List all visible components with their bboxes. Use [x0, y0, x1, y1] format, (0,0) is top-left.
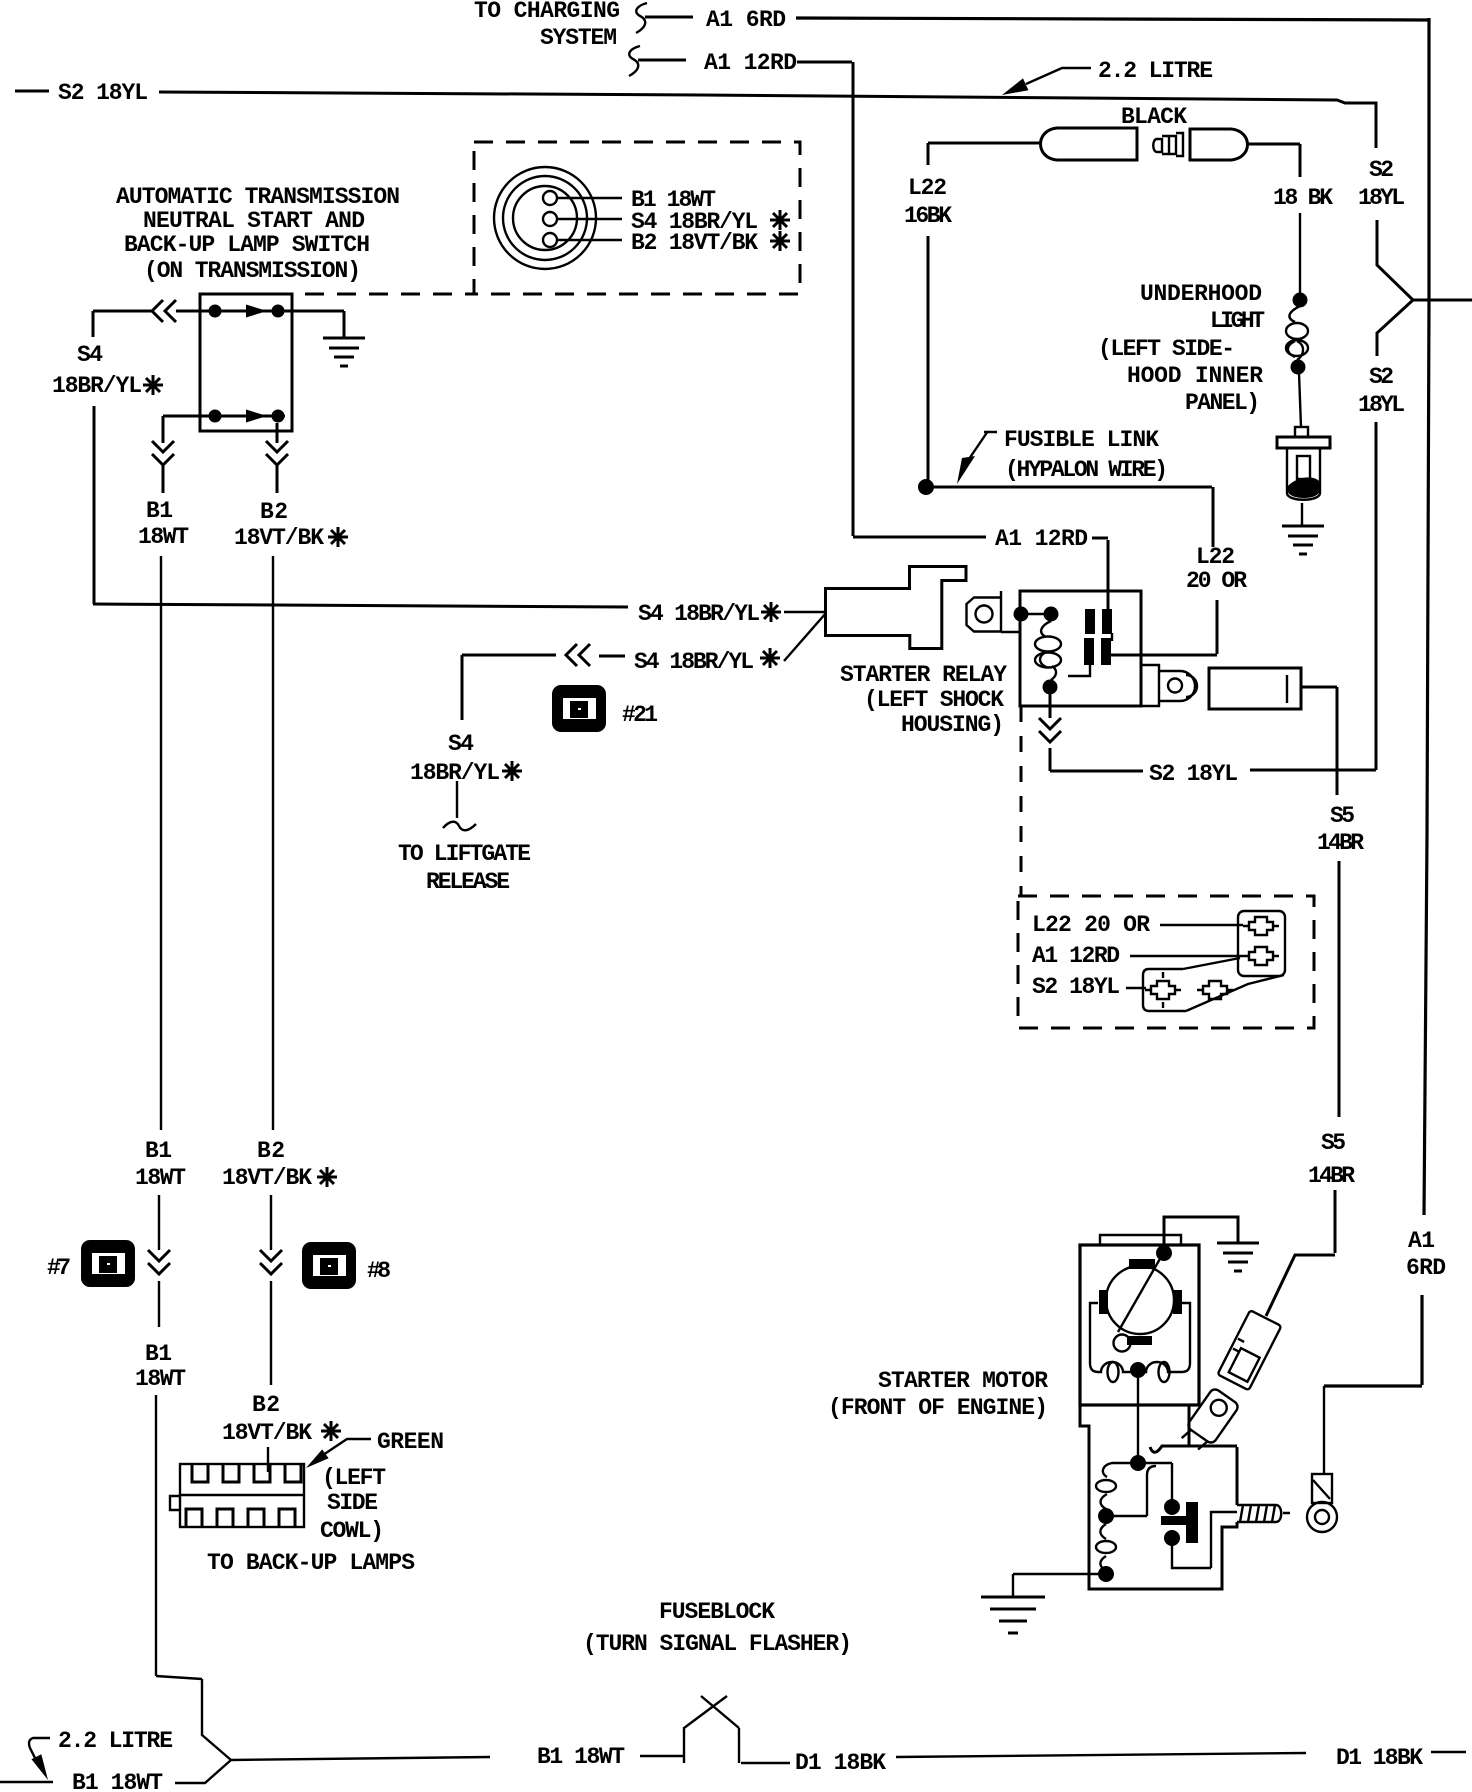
svg-text:S2 18YL: S2 18YL [1032, 974, 1120, 1000]
label B2 18VT/BK lower [222, 1392, 341, 1446]
svg-text:SIDE: SIDE [327, 1490, 378, 1516]
svg-text:SYSTEM: SYSTEM [540, 25, 617, 51]
switch S1 lower contact dots [209, 410, 222, 423]
spade terminal on solenoid S terminal [1218, 1310, 1282, 1390]
switch S1 upper arrow [246, 305, 267, 318]
label (LEFT SIDE COWL) [320, 1465, 386, 1544]
label B1 18WT [138, 498, 189, 550]
svg-text:16BK: 16BK [904, 203, 952, 229]
wire B1 long vertical [160, 556, 162, 1130]
wire 18 BK from bullet [1248, 144, 1300, 177]
wire A1 6RD to right edge [796, 18, 1429, 20]
wire L22 20 OR run [934, 487, 1217, 655]
wire S5 from diode box [1301, 687, 1337, 795]
wire B2 long vertical [272, 556, 274, 1130]
svg-text:NEUTRAL START AND: NEUTRAL START AND [143, 208, 365, 234]
brushes [1099, 1259, 1182, 1345]
chevron on S2 relay output [1039, 718, 1061, 742]
pin label S4 18BR/YL [631, 209, 790, 235]
svg-text:STARTER RELAY: STARTER RELAY [840, 662, 1007, 688]
svg-text:14BR: 14BR [1317, 830, 1364, 856]
wire S2 18YL top left stub [15, 90, 49, 93]
label S5 14BR [1317, 803, 1364, 856]
wire B1 bottom corner [156, 1676, 231, 1760]
wire break squiggle A1 12RD [629, 46, 640, 76]
label B1 18WT lower [135, 1341, 186, 1392]
bulb (left side-hood inner panel) [1277, 427, 1330, 500]
svg-text:(LEFT SHOCK: (LEFT SHOCK [864, 687, 1004, 713]
inset leader S2 [1126, 987, 1146, 989]
label S4 18BR/YL liftgate [410, 731, 522, 786]
wire S4 from switch to left corner [93, 311, 152, 337]
svg-text:BLACK: BLACK [1121, 104, 1187, 130]
underhood lamp top dot [1293, 293, 1308, 308]
solenoid coil bottom dot [1098, 1566, 1114, 1582]
starter relay contact bars upper [1085, 609, 1095, 634]
wire S4 branch down to liftgate [461, 655, 464, 720]
starter relay coil dots [1014, 607, 1029, 622]
contact dots [1164, 1499, 1180, 1546]
dashed link from switch to connector view [305, 293, 474, 296]
connector C100 pin S4 [543, 212, 557, 226]
svg-text:GREEN: GREEN [377, 1429, 444, 1455]
starter relay inner contact lead [1068, 633, 1112, 676]
svg-text:(LEFT SIDE-: (LEFT SIDE- [1098, 336, 1235, 362]
svg-text:(HYPALON WIRE): (HYPALON WIRE) [1005, 457, 1168, 483]
label B1 18WT mid [135, 1138, 186, 1191]
wire lower contact to stud [1172, 1512, 1237, 1568]
switch label: automatic transmission neutral start and back-up lamp switch [116, 184, 400, 284]
svg-text:L22: L22 [1196, 544, 1235, 570]
label 2.2 LITRE bottom with arrow [29, 1728, 173, 1780]
svg-text:B1: B1 [145, 1341, 172, 1367]
svg-text:TO LIFTGATE: TO LIFTGATE [398, 841, 531, 867]
label FUSEBLOCK (TURN SIGNAL FLASHER) [583, 1599, 852, 1657]
wire S4 row 2 [462, 655, 625, 656]
wire to bulb [1299, 373, 1301, 427]
wire break squiggle liftgate [443, 822, 476, 831]
wire B2 stub to connector [267, 1447, 269, 1472]
chevron B1 [152, 441, 174, 465]
wire S4 row1 to relay plug [784, 611, 826, 613]
label STARTER MOTOR (FRONT OF ENGINE) [828, 1368, 1048, 1421]
chevron B2 lower [260, 1250, 282, 1274]
ground at switch [323, 338, 365, 366]
label S2 18YL lower right [1358, 364, 1405, 418]
wire L22 16BK vertical [927, 143, 930, 486]
wire B1 to chevron [158, 1195, 160, 1327]
connector #8 [302, 1242, 356, 1289]
wire S4 row 1 [93, 604, 628, 607]
label B2 18VT/BK mid [222, 1138, 337, 1191]
label FUSIBLE LINK (HYPALON WIRE) with arrow [957, 427, 1168, 484]
dashed box around transmission connector view [474, 142, 800, 294]
wire B1 below switch [162, 416, 165, 493]
svg-text:#21: #21 [622, 702, 658, 728]
svg-text:D1 18BK: D1 18BK [1336, 1745, 1423, 1771]
wire to fuseblock tent [640, 1755, 684, 1757]
starter relay contact bars lower [1084, 638, 1094, 665]
svg-text:A1 12RD: A1 12RD [995, 526, 1088, 552]
label B2 18VT/BK [234, 499, 348, 551]
field coil ovals [1108, 1362, 1170, 1382]
svg-text:S4 18BR/YL: S4 18BR/YL [638, 601, 760, 627]
label STARTER RELAY (LEFT SHOCK HOUSING) [840, 662, 1007, 738]
wire from motor to ground [1164, 1217, 1238, 1250]
svg-text:(LEFT: (LEFT [322, 1465, 386, 1491]
back-up lamp connector (left side cowl) [170, 1464, 304, 1527]
inset leader L22 [1160, 924, 1243, 926]
label S4 18BR/YL row 2 [634, 648, 780, 675]
starter relay coil [1035, 621, 1061, 680]
svg-text:(TURN SIGNAL FLASHER): (TURN SIGNAL FLASHER) [583, 1631, 852, 1657]
wire bulb to ground [1301, 503, 1303, 525]
svg-text:TO BACK-UP LAMPS: TO BACK-UP LAMPS [207, 1550, 415, 1576]
wire S2 to Y junction [1377, 220, 1413, 300]
svg-text:2.2 LITRE: 2.2 LITRE [1098, 58, 1213, 84]
chevron B1 lower [148, 1250, 170, 1274]
switch S1 upper contact dots [209, 305, 222, 318]
connector C100 pin B2 [543, 233, 557, 247]
wire S2 18YL long top run [159, 92, 1376, 148]
svg-text:18VT/BK: 18VT/BK [234, 525, 324, 551]
svg-text:B2: B2 [260, 499, 288, 525]
inset terminal cross S2 left [1145, 972, 1181, 1008]
svg-text:PANEL): PANEL) [1185, 390, 1260, 416]
svg-text:L22 20 OR: L22 20 OR [1032, 912, 1150, 938]
inset terminal bracket upper [1238, 911, 1285, 976]
label 2.2 LITRE with arrow [1002, 58, 1213, 95]
connector #7 [81, 1240, 135, 1287]
wire B2 to chevron [270, 1195, 272, 1385]
svg-text:20 OR: 20 OR [1186, 568, 1247, 594]
wire A1 to ring terminal [1323, 1386, 1325, 1474]
label L22 16BK [904, 175, 952, 229]
wire D1 18BK run [896, 1753, 1306, 1757]
underhood lamp bottom dot [1291, 360, 1306, 375]
switch S1 lower contact wire [163, 415, 285, 418]
wire to solenoid [1137, 1378, 1139, 1456]
wire after crossover [741, 1762, 790, 1764]
label LEFT SIDE-HOOD INNER PANEL [1098, 336, 1263, 416]
dashed link relay to inset [1020, 706, 1023, 896]
svg-text:HOOD INNER: HOOD INNER [1127, 363, 1263, 389]
pin B2 leader [557, 239, 622, 241]
svg-text:2.2 LITRE: 2.2 LITRE [58, 1728, 173, 1754]
fuseblock crossover [684, 1696, 739, 1763]
svg-text:UNDERHOOD: UNDERHOOD [1140, 281, 1262, 307]
svg-text:18VT/BK: 18VT/BK [222, 1165, 312, 1191]
starter motor housing [1080, 1245, 1199, 1405]
inset terminal cross S2 right [1197, 981, 1233, 999]
solenoid coil mid dot [1098, 1508, 1114, 1524]
inset leader A1 [1130, 955, 1243, 957]
wire S2 to right edge [1413, 299, 1472, 302]
starter relay K1 body [1020, 591, 1141, 706]
label L22 20 OR [1186, 544, 1247, 594]
label S2 18YL upper right [1358, 157, 1405, 211]
starter relay S4 plug [826, 567, 967, 649]
svg-text:14BR: 14BR [1308, 1163, 1355, 1189]
svg-text:18WT: 18WT [138, 524, 189, 550]
svg-text:#8: #8 [367, 1258, 391, 1284]
underhood lamp filament coil [1286, 306, 1308, 360]
wire row2 diagonal to plug [784, 613, 826, 661]
armature frame [1090, 1303, 1190, 1372]
svg-text:D1 18BK: D1 18BK [795, 1750, 886, 1776]
switch S1 body (on transmission) [200, 294, 292, 431]
label S4 18BR/YL left [52, 342, 163, 399]
pin B1 leader [557, 197, 622, 199]
ground at starter motor [1217, 1243, 1259, 1271]
solenoid housing [1080, 1405, 1237, 1589]
wire D1 18BK off page right [1431, 1751, 1466, 1753]
svg-text:S4 18BR/YL: S4 18BR/YL [634, 649, 754, 675]
svg-text:A1 12RD: A1 12RD [704, 50, 797, 76]
svg-text:S2: S2 [1369, 157, 1394, 183]
svg-text:(ON TRANSMISSION): (ON TRANSMISSION) [144, 258, 361, 284]
svg-text:6RD: 6RD [1406, 1255, 1446, 1281]
svg-text:COWL): COWL) [320, 1518, 384, 1544]
svg-text:RELEASE: RELEASE [426, 869, 510, 895]
underhood light label [1140, 281, 1265, 334]
label A1 6RD right [1406, 1228, 1446, 1281]
switch S1 lower arrow [246, 410, 267, 423]
svg-text:STARTER MOTOR: STARTER MOTOR [878, 1368, 1048, 1394]
wire B2 below switch [276, 423, 279, 493]
svg-text:AUTOMATIC TRANSMISSION: AUTOMATIC TRANSMISSION [116, 184, 400, 210]
svg-text:S2 18YL: S2 18YL [1149, 761, 1238, 787]
wire S5 down [1338, 861, 1341, 1117]
armature bottom dot [1130, 1362, 1146, 1378]
bullet connector male tip [1153, 133, 1183, 156]
svg-text:BACK-UP LAMP SWITCH: BACK-UP LAMP SWITCH [124, 232, 370, 258]
ground at solenoid [981, 1597, 1045, 1633]
svg-text:(FRONT OF ENGINE): (FRONT OF ENGINE) [828, 1395, 1048, 1421]
connector C100 concentric circles [494, 167, 596, 269]
svg-text:B1: B1 [146, 498, 173, 524]
label TO LIFTGATE RELEASE [398, 841, 531, 895]
svg-text:S5: S5 [1321, 1130, 1346, 1156]
svg-text:B2: B2 [252, 1392, 280, 1418]
solenoid junction dot [1130, 1455, 1146, 1471]
wire A1 6RD right edge [1324, 18, 1429, 1386]
svg-text:#7: #7 [47, 1255, 71, 1281]
wire A1 6RD stub [645, 16, 693, 19]
diode box at relay [1209, 668, 1301, 709]
svg-text:B2: B2 [257, 1138, 285, 1164]
pin label B2 18VT/BK [631, 230, 790, 256]
svg-text:18YL: 18YL [1358, 392, 1405, 418]
wire branch to off-page B1 [175, 1760, 231, 1783]
svg-text:S4: S4 [448, 731, 474, 757]
svg-text:A1 12RD: A1 12RD [1032, 943, 1120, 969]
battery terminal connector on solenoid [1179, 1387, 1240, 1455]
connector C100 pin B1 [543, 191, 557, 205]
label S5 14BR lower [1308, 1130, 1355, 1189]
label A1 12RD at relay [995, 526, 1108, 611]
wire S2 below Y junction [1377, 300, 1413, 356]
dashed inset box [1018, 896, 1314, 1028]
connector #21 [552, 685, 606, 732]
inset terminal cross L22 [1243, 917, 1279, 935]
wire A1 12RD stub [638, 59, 686, 62]
wire S2 from relay coil [1050, 693, 1143, 771]
label S4 18BR/YL row 1 [638, 601, 781, 627]
ring terminal on battery stud [1307, 1474, 1337, 1532]
chevrons S4 row 2 [566, 644, 590, 666]
starter relay left tab lug [967, 591, 1021, 632]
wire B1 bottom run [231, 1757, 490, 1760]
wire S4 left vertical [93, 406, 96, 604]
svg-text:B1 18WT: B1 18WT [537, 1744, 625, 1770]
svg-text:18BR/YL: 18BR/YL [410, 760, 500, 786]
svg-text:L22: L22 [908, 175, 947, 201]
pin S4 leader [557, 218, 622, 220]
wire below label [456, 781, 458, 818]
svg-text:HOUSING): HOUSING) [901, 712, 1004, 738]
starter motor top cap [1100, 1235, 1181, 1245]
wire S5 to spade terminal [1266, 1190, 1335, 1316]
svg-text:B1 18WT: B1 18WT [72, 1770, 163, 1792]
solenoid pull-in coil [1096, 1463, 1131, 1570]
wire 18 BK down [1299, 213, 1301, 293]
chevron B2 [266, 441, 288, 465]
wire A1 12RD down left side [797, 62, 986, 537]
commutator circle with slash [1106, 1257, 1174, 1352]
wire L22 16BK to bullet [928, 142, 1041, 145]
solenoid contact disc [1161, 1502, 1198, 1543]
starter motor feed dot [1156, 1245, 1172, 1261]
node TO CHARGING SYSTEM [474, 0, 620, 51]
bullet connector female (left side-hood inner panel) [1041, 128, 1138, 160]
starter relay coil bottom dot [1043, 680, 1058, 695]
svg-text:18WT: 18WT [135, 1165, 186, 1191]
wire S2 down to relay output [1375, 422, 1378, 770]
wire break squiggle A1 6RD [636, 3, 647, 33]
solenoid stud (threaded) [1237, 1505, 1290, 1522]
svg-text:18 BK: 18 BK [1273, 185, 1333, 211]
svg-text:18BR/YL: 18BR/YL [52, 373, 142, 399]
svg-text:S2 18YL: S2 18YL [58, 80, 148, 106]
wire top dot to contact [1145, 1463, 1172, 1500]
svg-text:18WT: 18WT [135, 1366, 186, 1392]
svg-text:S4: S4 [77, 342, 103, 368]
svg-text:S2: S2 [1369, 364, 1394, 390]
bullet connector male body [1190, 129, 1248, 160]
svg-text:FUSIBLE LINK: FUSIBLE LINK [1004, 427, 1159, 453]
inset terminal cross A1 [1243, 947, 1279, 965]
node fusible link junction [918, 479, 934, 495]
label GREEN with arrow [306, 1429, 444, 1468]
svg-text:B2 18VT/BK: B2 18VT/BK [631, 230, 758, 256]
wire to ground from switch [343, 311, 346, 337]
svg-text:LIGHT: LIGHT [1210, 308, 1265, 334]
wire B1 off page left [0, 1781, 53, 1783]
starter relay coil wire [1027, 613, 1046, 615]
starter relay right tab lug [1141, 665, 1197, 706]
wire solenoid to ground [1013, 1574, 1099, 1596]
svg-text:B1: B1 [145, 1138, 172, 1164]
switch S1 upper contact wire [176, 310, 344, 313]
svg-text:S5: S5 [1330, 803, 1355, 829]
svg-text:FUSEBLOCK: FUSEBLOCK [659, 1599, 775, 1625]
svg-text:A1 6RD: A1 6RD [706, 7, 786, 33]
svg-text:A1: A1 [1408, 1228, 1435, 1254]
chevrons on S4 wire [152, 300, 176, 322]
wire mid dot to contact [1113, 1466, 1156, 1516]
svg-text:18VT/BK: 18VT/BK [222, 1420, 312, 1446]
svg-text:18YL: 18YL [1358, 185, 1405, 211]
svg-text:TO CHARGING: TO CHARGING [474, 0, 620, 24]
wire S2 mid to right [1250, 769, 1376, 772]
wire B1 down to bottom [155, 1395, 157, 1676]
ground under bulb [1282, 526, 1324, 554]
